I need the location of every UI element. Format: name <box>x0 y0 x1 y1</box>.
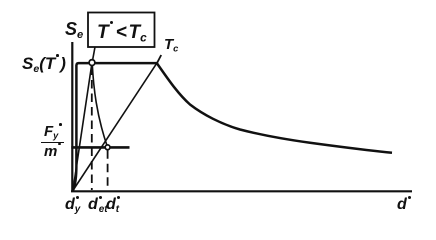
x-axis <box>71 190 412 192</box>
circle marker C1: elastic demand point <box>89 60 95 66</box>
capacity plateau at Fy*/m* <box>71 146 129 149</box>
label d_t* <box>106 197 119 215</box>
label Se (y-axis) <box>65 20 83 41</box>
label d_et* <box>88 197 108 215</box>
dashed vertical at d_et* <box>91 67 93 191</box>
label Se(T*) <box>22 55 66 75</box>
label Tc (at corner) <box>164 37 178 54</box>
label d_y* <box>65 197 80 215</box>
connector from label box to elastic point <box>93 47 95 59</box>
radial line Tc (origin to corner) <box>73 63 157 190</box>
label T* < Tc (in box) <box>97 23 147 44</box>
dashed vertical at d_t* <box>107 150 109 190</box>
tick at Tc corner <box>157 55 162 64</box>
radial line T* (origin to elastic demand point) <box>73 63 92 191</box>
elastic spectrum: rise, plateau, descending branch <box>73 63 392 190</box>
label box T* < Tc <box>88 13 155 48</box>
label d* (x-axis) <box>397 197 411 213</box>
label Fy*/m* (fraction) <box>41 124 64 159</box>
y-axis <box>71 42 73 192</box>
curve from elastic point down to target point <box>92 63 107 147</box>
circle marker C2: target displacement point <box>105 145 110 150</box>
